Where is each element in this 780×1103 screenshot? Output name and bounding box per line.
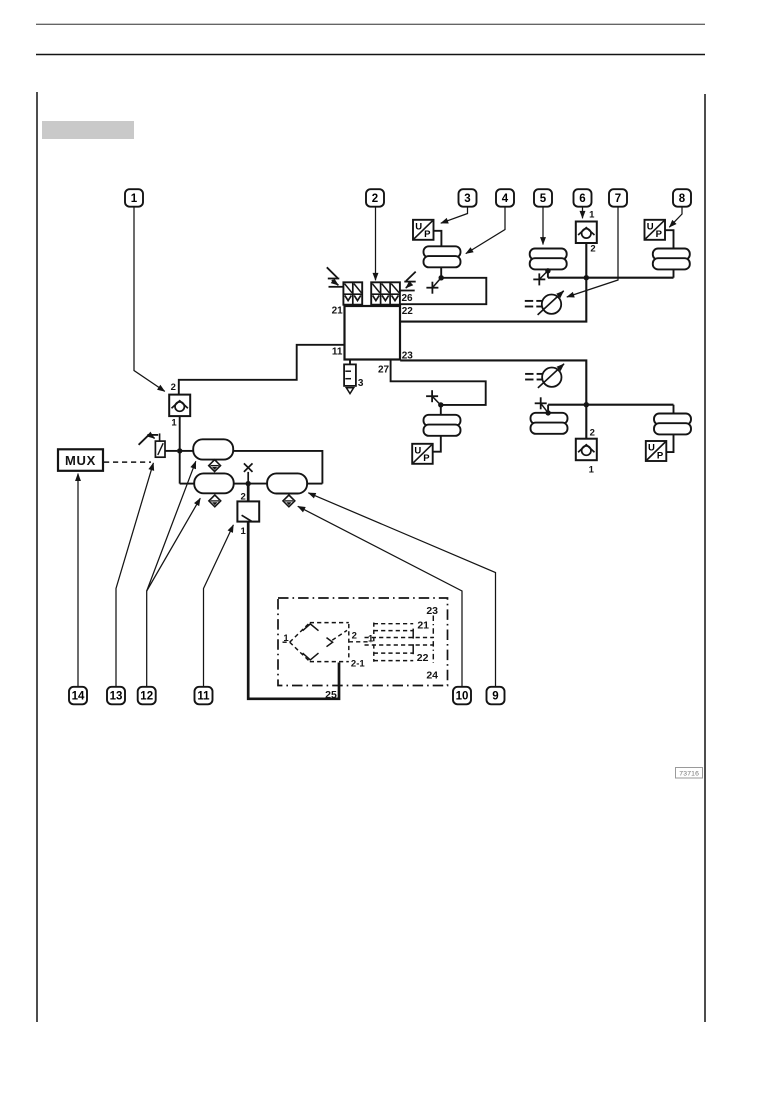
callout label 3 — [459, 189, 477, 207]
wire junction to bellows LL — [440, 405, 442, 415]
section title placeholder bar — [42, 121, 134, 139]
air bellows rear right — [654, 414, 691, 435]
svg-text:9: 9 — [492, 691, 498, 703]
check valve 1 — [169, 395, 190, 417]
wire port 11 supply line — [179, 345, 345, 395]
electric actuation arrow right — [400, 272, 416, 291]
node bellows rear mid — [545, 410, 550, 415]
electric actuation arrow at regulator — [139, 434, 159, 445]
air dryer diamond — [283, 623, 349, 662]
callout label 13 — [107, 687, 125, 705]
wire reservoir B to node — [234, 483, 249, 485]
test point flag at bellows 5 — [533, 272, 547, 286]
solenoid drain valve 2 — [237, 501, 259, 521]
test point flag at bellows rear mid — [535, 397, 548, 412]
test point flag at bellows 3 — [426, 279, 440, 294]
leader from label 12 to air reservoir B — [147, 498, 201, 591]
page border left — [36, 92, 38, 1022]
check valve rear — [576, 439, 597, 461]
callout label 4 — [496, 189, 514, 207]
svg-text:P: P — [424, 229, 431, 240]
wire reservoir C to rear bus corner — [307, 483, 322, 485]
leader from label 3 to pressure sensor U/P — [441, 207, 468, 223]
page header rule top — [36, 24, 705, 25]
electrical connector block — [365, 616, 434, 664]
svg-text:P: P — [656, 229, 663, 240]
callout label 11 — [195, 687, 213, 705]
svg-text:73716: 73716 — [679, 771, 699, 778]
svg-text:10: 10 — [456, 691, 469, 703]
page border right — [704, 94, 706, 1022]
leader from label 14 to MUX — [77, 474, 79, 687]
svg-text:1: 1 — [589, 464, 595, 475]
solenoid group left (ports 21) — [343, 282, 362, 304]
dash gauge front — [525, 291, 564, 315]
pressure sensor U/P rear left — [412, 444, 433, 464]
air bellows 8 front right — [653, 249, 690, 270]
pressure sensor U/P 3 — [413, 220, 434, 240]
callout label 7 — [609, 189, 627, 207]
svg-text:P: P — [423, 453, 430, 464]
valve block body — [345, 306, 401, 360]
solenoid group right (ports 22 26) — [371, 282, 400, 304]
air bellows 4 front left — [424, 246, 461, 267]
leader from label 13 to pressure regulator — [116, 463, 153, 687]
leader from label 12 to air reservoir A — [147, 461, 196, 686]
leader from label 9 to air reservoir C — [308, 493, 495, 687]
wire port 22 line — [400, 278, 586, 322]
wire check valve rear stem — [585, 405, 587, 439]
svg-text:2: 2 — [171, 382, 176, 393]
wire junction to bellows 3 — [440, 267, 442, 277]
dash gauge rear — [525, 364, 564, 388]
drain of reservoir B — [209, 495, 221, 507]
svg-text:26: 26 — [401, 293, 413, 304]
svg-text:U: U — [415, 221, 422, 232]
node reservoir junction — [177, 448, 182, 453]
svg-text:2: 2 — [590, 427, 595, 438]
svg-text:11: 11 — [197, 691, 210, 703]
svg-text:11: 11 — [332, 346, 343, 357]
svg-text:12: 12 — [140, 691, 153, 703]
svg-text:P: P — [657, 450, 664, 461]
leader from label 5 to air bellows — [542, 207, 544, 244]
svg-text:13: 13 — [110, 691, 123, 703]
callout label 8 — [673, 189, 691, 207]
svg-text:8: 8 — [679, 193, 686, 205]
svg-text:1: 1 — [171, 418, 177, 429]
leader from label 7 to gauge — [567, 207, 618, 297]
svg-text:U: U — [647, 221, 654, 232]
node bellows 3 junction — [439, 275, 444, 280]
wire sensor 3 to bellows — [434, 231, 442, 247]
svg-text:2: 2 — [352, 630, 357, 641]
svg-text:22: 22 — [417, 652, 429, 664]
leader from label 1 to check valve 1 — [134, 207, 165, 391]
wire bellows 8 to supply — [673, 270, 675, 278]
svg-text:6: 6 — [579, 193, 585, 205]
wire sensor to bellows rear right — [666, 435, 673, 453]
air reservoir B — [194, 473, 234, 493]
leader from label 8 to pressure sensor U/P — [669, 207, 682, 227]
svg-text:23: 23 — [426, 605, 438, 617]
dashed signal wire MUX to regulator — [104, 461, 151, 463]
svg-text:1: 1 — [240, 526, 246, 537]
drain of reservoir C — [283, 495, 295, 507]
callout label 14 — [69, 687, 87, 705]
leader from label 6 to check valve 6 — [582, 207, 584, 218]
wire lower bus left — [180, 483, 195, 485]
callout label 2 — [366, 189, 384, 207]
air bellows rear left — [424, 415, 461, 436]
drain of reservoir A — [209, 460, 221, 472]
node drain valve junction — [246, 481, 251, 486]
pressure sensor U/P rear right — [646, 441, 667, 461]
callout label 10 — [453, 687, 471, 705]
svg-text:21: 21 — [417, 619, 429, 631]
callout label 9 — [487, 687, 505, 705]
wire bellows mid to rear supply — [547, 405, 549, 413]
wire port 27 branch — [391, 360, 486, 405]
callout label 12 — [138, 687, 156, 705]
svg-text:2: 2 — [590, 244, 595, 255]
wire reservoir A to rear bus — [233, 451, 322, 484]
leader from label 2 to solenoid block — [375, 207, 377, 280]
svg-text:25: 25 — [325, 689, 337, 701]
dashed wire dryer port 2 to connector — [349, 641, 371, 643]
svg-text:27: 27 — [378, 364, 390, 375]
callout label 6 — [574, 189, 592, 207]
svg-text:2: 2 — [372, 193, 378, 205]
node rear supply junction — [584, 402, 589, 407]
wire port 23 line — [400, 360, 586, 404]
svg-text:5: 5 — [540, 193, 547, 205]
wire bellows rear right to supply — [673, 405, 675, 414]
wire node to reservoir C — [248, 483, 267, 485]
leader from label 10 to drain of reservoir C — [298, 506, 462, 686]
callout label 1 — [125, 189, 143, 207]
page header rule bottom — [36, 54, 705, 56]
air bellows 5 front axle — [530, 249, 567, 270]
wire bellows LL to sensor — [433, 436, 441, 452]
wire regulator to junction — [165, 450, 177, 452]
svg-text:MUX: MUX — [65, 453, 96, 468]
svg-text:1: 1 — [131, 193, 138, 205]
node front supply junction — [584, 275, 589, 280]
svg-text:24: 24 — [426, 669, 438, 681]
electric actuation arrow left — [327, 267, 344, 287]
svg-text:14: 14 — [72, 691, 85, 703]
wire check valve 1 to reservoir bus — [179, 416, 181, 484]
MUX control unit — [58, 449, 103, 471]
wire port 26 to bellows junction — [400, 278, 486, 304]
wire supply line front — [548, 277, 674, 279]
wire bellows 5 to supply line — [547, 271, 549, 278]
svg-text:2-1: 2-1 — [351, 658, 365, 669]
figure number box 73716 — [676, 768, 703, 779]
wire 25 drain valve to dryer — [248, 522, 339, 699]
wire sensor 8 to bellows 8 — [665, 230, 674, 248]
plugged port X — [244, 463, 253, 481]
svg-text:4: 4 — [502, 193, 509, 205]
test point flag at bellows LL — [426, 390, 440, 404]
svg-text:U: U — [414, 445, 421, 456]
leader from label 11 to drain valve 2 — [204, 525, 234, 687]
check valve 6 — [576, 222, 597, 244]
wire junction to reservoir A — [180, 450, 194, 452]
pressure sensor U/P 8 — [645, 220, 666, 240]
wire rear supply line — [548, 404, 673, 406]
phantom box air processing unit — [278, 598, 448, 686]
wire node to drain valve — [247, 484, 250, 502]
leader from label 4 to air bellows — [466, 207, 505, 253]
node bellows LL junction — [438, 402, 443, 407]
svg-text:7: 7 — [615, 193, 621, 205]
svg-text:3: 3 — [358, 378, 364, 389]
air reservoir C — [267, 473, 307, 493]
pressure regulator 13 — [155, 433, 165, 457]
svg-text:U: U — [648, 443, 655, 454]
svg-text:22: 22 — [402, 306, 414, 317]
exhaust silencer 3 — [344, 360, 356, 394]
node bellows 5 — [545, 268, 550, 273]
svg-text:1: 1 — [589, 210, 595, 221]
svg-text:3: 3 — [464, 193, 470, 205]
wire check valve 6 stem — [585, 243, 587, 278]
air bellows rear mid — [531, 413, 568, 434]
callout label 5 — [534, 189, 552, 207]
air reservoir A — [193, 439, 233, 459]
svg-text:21: 21 — [332, 306, 344, 317]
